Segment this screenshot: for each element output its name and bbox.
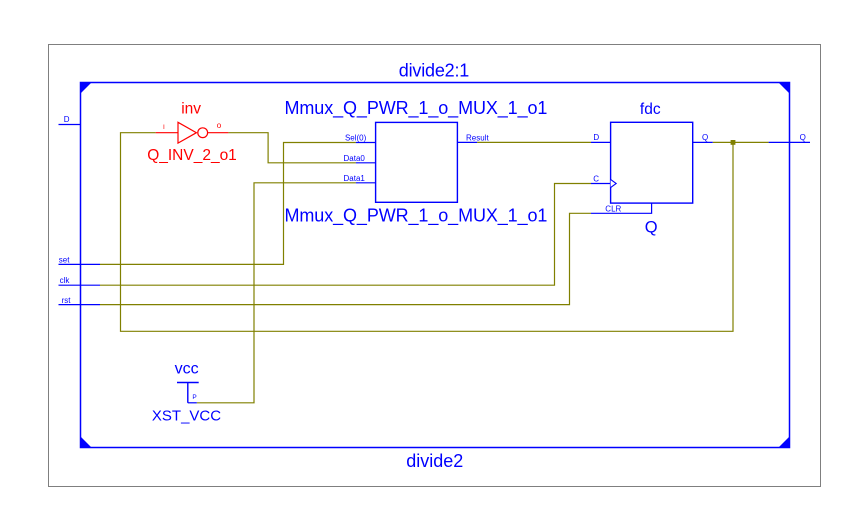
svg-text:Q_INV_2_o1: Q_INV_2_o1	[147, 147, 237, 164]
port Q	[769, 133, 810, 143]
svg-text:rst: rst	[62, 296, 72, 305]
wire set to Sel(0)	[100, 143, 356, 265]
wire VCC to Data1	[197, 183, 356, 403]
module boundary divide2	[80, 82, 790, 448]
svg-text:C: C	[593, 175, 599, 184]
inverter Q_INV_2_o1	[156, 122, 229, 143]
port rst	[59, 296, 101, 305]
svg-text:divide2:1: divide2:1	[399, 60, 469, 80]
svg-text:o: o	[217, 121, 222, 130]
svg-text:D: D	[64, 115, 70, 124]
port set	[59, 256, 101, 265]
svg-text:Q: Q	[800, 133, 806, 142]
port D	[59, 115, 81, 124]
wire rst to CLR	[100, 213, 591, 304]
svg-text:divide2: divide2	[406, 451, 463, 471]
wire Q feedback	[713, 141, 769, 143]
svg-text:P: P	[192, 394, 196, 401]
svg-text:Q: Q	[645, 219, 658, 237]
power XST_VCC	[177, 383, 199, 403]
svg-text:CLR: CLR	[605, 204, 621, 213]
svg-text:vcc: vcc	[175, 361, 199, 378]
junction Q	[731, 140, 736, 145]
svg-text:D: D	[593, 133, 599, 142]
svg-text:inv: inv	[181, 100, 201, 117]
svg-text:set: set	[59, 256, 70, 265]
wire Result to D	[477, 141, 591, 143]
svg-text:Mmux_Q_PWR_1_o_MUX_1_o1: Mmux_Q_PWR_1_o_MUX_1_o1	[285, 98, 548, 119]
flip-flop fdc	[591, 122, 713, 213]
svg-text:fdc: fdc	[640, 101, 661, 118]
svg-text:I: I	[163, 124, 165, 131]
wire Q feedback vertical	[121, 133, 734, 332]
svg-text:Q: Q	[702, 133, 708, 142]
svg-text:Mmux_Q_PWR_1_o_MUX_1_o1: Mmux_Q_PWR_1_o_MUX_1_o1	[285, 205, 548, 226]
mux Mmux_Q_PWR_1_o_MUX_1_o1	[356, 122, 477, 202]
svg-text:Sel(0): Sel(0)	[345, 133, 367, 142]
port clk	[59, 276, 101, 285]
svg-text:Result: Result	[466, 133, 489, 142]
svg-text:Data1: Data1	[344, 174, 366, 183]
svg-text:clk: clk	[60, 276, 71, 285]
svg-text:Data0: Data0	[344, 154, 366, 163]
wire clk to C	[100, 184, 591, 286]
svg-text:XST_VCC: XST_VCC	[152, 407, 221, 424]
wire inverter output to Data0	[228, 133, 356, 163]
